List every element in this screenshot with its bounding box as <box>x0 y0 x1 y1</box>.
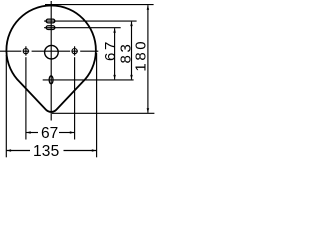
dimension line 180 right <box>147 5 149 113</box>
horizontal centerline <box>0 50 98 52</box>
arrowhead 67 right top <box>113 28 116 33</box>
teardrop outline <box>6 5 96 112</box>
dimension line 83 right <box>131 22 133 80</box>
top extension line (180) <box>45 4 154 6</box>
center circle <box>45 45 59 59</box>
svg-text:135: 135 <box>33 143 59 160</box>
arrowhead 180 top <box>147 5 150 10</box>
upper slot centerline / 83 extension line <box>44 20 137 22</box>
right 135 extension line <box>96 53 98 157</box>
arrowhead 67 bottom right <box>70 131 75 134</box>
arrowhead 135 right <box>92 149 97 152</box>
bottom slot centerline / extension line <box>43 79 134 81</box>
svg-text:180: 180 <box>133 39 150 72</box>
lower slot centerline / 67 extension line <box>44 27 121 29</box>
vertical centerline <box>50 1 52 121</box>
arrowhead 83 right bottom <box>130 75 133 80</box>
svg-text:67: 67 <box>102 39 119 61</box>
dimension line 135 bottom left segment <box>7 150 30 152</box>
left mounting hole <box>23 49 28 54</box>
dimension line 67 bottom left segment <box>26 132 38 134</box>
right mounting hole <box>72 49 77 54</box>
right 67 extension line <box>74 57 76 139</box>
dimension line 67 right <box>114 28 116 79</box>
dimension line 135 bottom right segment <box>64 150 97 152</box>
right hole vertical tick <box>74 46 76 55</box>
bottom slot <box>49 76 53 84</box>
lower slot <box>46 26 55 30</box>
arrowhead 180 bottom <box>147 108 150 113</box>
upper slot <box>46 19 55 23</box>
left 67 extension line <box>25 57 27 139</box>
left hole vertical tick <box>25 46 27 55</box>
arrowhead 135 left <box>7 149 12 152</box>
arrowhead 67 bottom left <box>26 131 31 134</box>
svg-text:67: 67 <box>41 125 58 142</box>
bottom tip extension line (180) <box>52 112 154 114</box>
dimension line 67 bottom right segment <box>59 132 74 134</box>
arrowhead 67 right bottom <box>113 75 116 80</box>
arrowhead 83 right top <box>130 22 133 27</box>
left 135 extension line <box>5 55 7 157</box>
